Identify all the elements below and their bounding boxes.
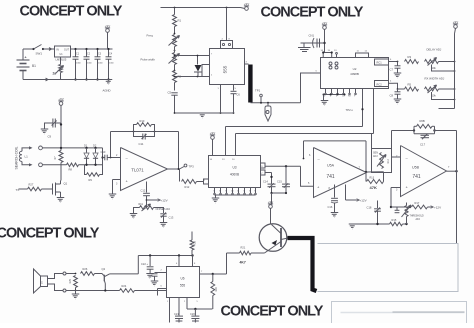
svg-text:C17: C17 [420, 143, 426, 147]
svg-text:CN1: CN1 [309, 34, 315, 38]
svg-text:R12: R12 [185, 185, 190, 189]
svg-text:R17: R17 [415, 201, 420, 205]
svg-text:2a: 2a [53, 72, 57, 76]
svg-text:L1: L1 [25, 155, 29, 159]
svg-text:Freq: Freq [147, 34, 154, 38]
svg-text:555: 555 [180, 284, 186, 288]
svg-text:C20: C20 [190, 312, 195, 316]
svg-text:+9V: +9V [453, 20, 458, 24]
svg-text:+12V: +12V [360, 199, 367, 203]
svg-text:CONCEPT ONLY: CONCEPT ONLY [20, 4, 123, 20]
svg-text:R21: R21 [241, 246, 246, 250]
svg-text:TP2 o: TP2 o [346, 108, 354, 112]
svg-text:D2: D2 [93, 144, 97, 148]
svg-text:+9V: +9V [58, 97, 63, 101]
svg-text:Q2: Q2 [102, 267, 106, 271]
svg-text:R5: R5 [408, 83, 412, 87]
svg-text:B1: B1 [32, 64, 36, 68]
svg-text:U6: U6 [180, 277, 184, 281]
svg-text:R25: R25 [69, 278, 72, 283]
svg-text:U3: U3 [232, 166, 236, 170]
svg-text:D1: D1 [84, 144, 88, 148]
svg-text:ADJ: ADJ [416, 218, 420, 221]
svg-text:SEARCH COIL: SEARCH COIL [15, 146, 19, 169]
svg-text:THRESHOLD: THRESHOLD [410, 216, 425, 218]
svg-text:RC2: RC2 [377, 82, 383, 86]
svg-text:4060B: 4060B [230, 173, 239, 177]
svg-text:10k: 10k [432, 94, 437, 98]
svg-text:+9V: +9V [105, 24, 110, 28]
svg-text:R9: R9 [89, 178, 93, 182]
svg-text:555: 555 [223, 65, 228, 73]
svg-text:DELAY ADJ: DELAY ADJ [427, 48, 442, 52]
svg-text:C21: C21 [174, 312, 179, 316]
svg-text:C16: C16 [328, 205, 333, 209]
svg-text:Pulse width: Pulse width [141, 58, 156, 62]
svg-text:100n: 100n [109, 63, 115, 65]
svg-text:R10: R10 [140, 119, 145, 123]
svg-text:C5: C5 [168, 91, 172, 95]
svg-text:R11: R11 [139, 203, 144, 206]
svg-text:R15: R15 [392, 218, 397, 222]
svg-text:U5A: U5A [327, 164, 335, 168]
svg-text:ADJ: ADJ [373, 155, 378, 158]
svg-text:4K7: 4K7 [240, 261, 246, 265]
svg-text:R26: R26 [83, 267, 88, 271]
svg-text:C7: C7 [390, 68, 394, 72]
svg-text:RX WIDTH ADJ: RX WIDTH ADJ [425, 77, 445, 81]
svg-text:R14: R14 [387, 158, 390, 163]
svg-text:R23: R23 [194, 240, 197, 245]
svg-text:R22: R22 [215, 286, 218, 291]
svg-text:Q1: Q1 [64, 182, 68, 186]
svg-text:C18: C18 [367, 206, 372, 210]
svg-text:TP1: TP1 [255, 89, 261, 93]
svg-text:+: + [25, 56, 27, 60]
svg-text:+12V: +12V [161, 199, 168, 203]
svg-text:C6: C6 [237, 93, 241, 97]
svg-text:100n: 100n [98, 63, 104, 65]
svg-text:C15: C15 [277, 179, 282, 183]
svg-text:U5B: U5B [412, 166, 420, 170]
svg-text:R13: R13 [370, 177, 375, 180]
svg-text:+9V: +9V [210, 131, 215, 135]
svg-text:+9V: +9V [244, 2, 249, 6]
svg-text:TP3: TP3 [189, 165, 195, 169]
svg-text:R1: R1 [178, 19, 182, 23]
svg-text:R24: R24 [122, 284, 127, 288]
svg-text:+9V: +9V [322, 21, 327, 25]
svg-text:47K: 47K [370, 185, 377, 190]
svg-text:741: 741 [412, 174, 421, 180]
svg-text:LM78L05: LM78L05 [56, 58, 67, 62]
svg-text:C14: C14 [263, 179, 268, 183]
svg-text:R0B: R0B [420, 119, 425, 123]
svg-text:R3: R3 [408, 55, 412, 59]
svg-text:+9V: +9V [268, 200, 273, 204]
svg-text:AGND: AGND [103, 89, 111, 93]
svg-text:C9: C9 [48, 135, 52, 139]
svg-text:SW1: SW1 [36, 52, 43, 56]
svg-text:C12: C12 [141, 189, 146, 193]
svg-text:CONCEPT ONLY: CONCEPT ONLY [261, 5, 364, 21]
svg-text:RC1: RC1 [377, 61, 383, 65]
svg-text:100n: 100n [87, 63, 93, 65]
svg-text:CONCEPT ONLY: CONCEPT ONLY [221, 304, 324, 320]
svg-text:+12V: +12V [434, 206, 441, 210]
svg-text:IN: IN [57, 49, 60, 52]
svg-text:R8: R8 [69, 168, 73, 172]
svg-text:C22 +: C22 + [141, 262, 148, 266]
svg-text:4098B: 4098B [350, 72, 359, 76]
svg-text:R27: R27 [29, 183, 34, 187]
svg-text:OUT: OUT [64, 49, 70, 52]
svg-text:10k: 10k [432, 66, 437, 70]
svg-text:CONCEPT ONLY: CONCEPT ONLY [0, 226, 100, 242]
svg-text:C13: C13 [169, 216, 174, 220]
svg-text:100n: 100n [76, 63, 82, 65]
svg-text:C8: C8 [390, 94, 394, 98]
svg-text:U2: U2 [353, 67, 357, 71]
svg-text:TL071: TL071 [131, 168, 144, 173]
svg-text:C10: C10 [101, 150, 106, 154]
svg-text:741: 741 [326, 174, 335, 180]
svg-text:C11: C11 [139, 142, 144, 146]
